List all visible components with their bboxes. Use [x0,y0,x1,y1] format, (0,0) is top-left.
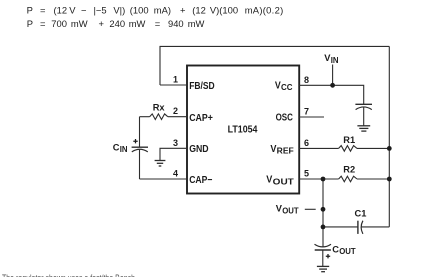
svg-text:=: = [155,18,161,29]
plus sign of CIN [133,139,137,143]
wire C1 left segment [323,226,358,228]
svg-text:V: V [69,5,76,16]
junction node at VIN on pin 8 wire [330,83,335,88]
svg-text:(100: (100 [130,5,149,16]
svg-text:R2: R2 [343,164,355,174]
svg-text:2: 2 [173,106,178,116]
ground at input cap [357,126,370,131]
svg-text:Rx: Rx [153,103,166,113]
wire CIN branch lower [139,150,141,179]
svg-text:IN: IN [331,56,339,65]
svg-text:6: 6 [304,138,309,148]
wire pin 6 left segment [299,147,339,149]
svg-text:FB/SD: FB/SD [189,81,215,92]
junction node VOUT tap [321,207,326,212]
svg-text:LT1054: LT1054 [228,124,258,135]
svg-text:8: 8 [304,75,309,85]
svg-text:IN: IN [120,145,128,154]
svg-text:mA): mA) [154,5,171,16]
power equation text line 1 [27,5,284,16]
junction node C1/COUT [321,225,326,230]
resistor R2 [339,176,357,182]
wire VOUT label dash [305,208,316,210]
svg-text:mW: mW [129,18,146,29]
wire VIN stub [332,65,334,86]
svg-text:CAP−: CAP− [189,175,212,186]
wire input cap to ground [363,107,365,126]
svg-text:5: 5 [304,169,309,179]
svg-text:The regulator shown uses a fas: The regulator shown uses a fast/the Benc… [2,273,135,277]
capacitor C1 plates [357,221,359,234]
junction node pin 5 / VOUT [321,177,326,182]
junction node R2 to bus [387,177,392,182]
wire pin 5 left segment [299,178,339,180]
svg-text:P: P [27,5,33,16]
wire CIN branch upper [139,117,141,148]
wire pin 7 OSC stub [299,116,324,118]
svg-text:CAP+: CAP+ [189,113,213,124]
svg-text:7: 7 [304,107,309,117]
svg-text:mW: mW [71,18,88,29]
svg-text:V: V [270,144,276,155]
wire COUT to ground [322,250,324,266]
svg-text:1: 1 [173,75,178,85]
svg-text:mW: mW [188,18,205,29]
svg-text:−: − [81,5,87,16]
svg-text:|−5: |−5 [94,5,107,16]
svg-text:OUT: OUT [282,207,299,216]
svg-text:=: = [40,5,46,16]
capacitor CIN plates [132,146,148,148]
svg-text:OUT: OUT [339,247,356,256]
svg-text:+: + [99,18,105,29]
svg-text:940: 940 [168,18,184,29]
svg-text:240: 240 [109,18,125,29]
wire pin 6 right segment to bus [357,147,389,149]
ground at COUT [317,266,329,271]
wire pin 8 VCC to input cap [299,85,364,104]
svg-text:V)(100: V)(100 [210,5,238,16]
svg-text:V: V [275,80,281,91]
svg-text:P: P [27,18,33,29]
svg-text:C1: C1 [355,209,367,219]
wire pin 2 left segment [140,116,150,118]
junction node R1 to bus [387,146,392,151]
wire C1 right segment [361,226,389,228]
wire right feedback bus [388,46,390,227]
svg-text:OUT: OUT [273,176,294,186]
svg-text:R1: R1 [343,135,355,145]
svg-text:REF: REF [277,146,294,156]
ground at pin 3 [155,161,166,167]
svg-text:mA)(0.2): mA)(0.2) [245,5,284,16]
wire pin 1 stub [160,84,187,86]
svg-text:3: 3 [173,138,178,148]
plus sign of COUT [326,254,330,258]
resistor Rx [150,114,168,120]
wire top feedback from pin 1 to VIN bus [160,46,389,85]
svg-text:=: = [40,18,46,29]
op-amp U1 LT1054 IC body [187,66,299,194]
wire VOUT node vertical [322,179,324,247]
svg-text:700: 700 [51,18,67,29]
svg-text:OSC: OSC [276,113,294,124]
svg-text:GND: GND [189,144,208,155]
svg-text:V: V [266,175,272,186]
svg-text:+: + [180,5,186,16]
capacitor input bypass plates [355,103,372,105]
svg-text:CC: CC [281,82,293,92]
svg-text:4: 4 [173,169,178,179]
wire pin 4 [140,178,188,180]
wire pin 2 right segment [168,116,187,118]
wire pin 5 right segment to bus [357,178,389,180]
wire pin 3 to ground [160,148,187,160]
svg-text:(12: (12 [192,5,206,16]
resistor R1 [339,146,357,152]
svg-text:(12: (12 [54,5,68,16]
capacitor COUT plates [315,244,332,247]
svg-text:V|): V|) [113,5,125,16]
power equation text line 2 [27,18,205,29]
